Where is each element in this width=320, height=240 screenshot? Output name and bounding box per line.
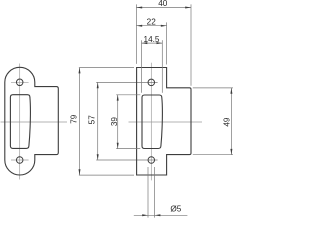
dim 49 extension top bbox=[193, 87, 233, 89]
dim 22 line bbox=[136, 25, 166, 27]
right view bottom screw hole bbox=[148, 157, 155, 164]
svg-text:79: 79 bbox=[70, 114, 79, 124]
left view top screw hole bbox=[16, 79, 23, 86]
dim diameter 5 extension right bbox=[154, 167, 156, 218]
dim 57 line bbox=[97, 82, 99, 160]
svg-text:57: 57 bbox=[88, 115, 97, 125]
dim 79 extension top bbox=[79, 67, 134, 69]
right view horizontal centerline bbox=[129, 121, 203, 123]
right view vertical centerline bbox=[150, 63, 152, 181]
svg-text:49: 49 bbox=[222, 117, 231, 127]
dim 40 extension left bbox=[135, 4, 137, 64]
right view top screw hole bbox=[148, 79, 155, 86]
left view bottom screw hole bbox=[16, 157, 23, 164]
dim 57 extension top / right view top hole crosshair bbox=[96, 81, 157, 83]
dim diameter 5 extension left bbox=[147, 167, 149, 218]
left view vertical centerline bbox=[19, 64, 21, 180]
right view plate outline bbox=[137, 68, 191, 176]
dim 39 extension bottom bbox=[116, 148, 140, 150]
dim 14.5 line bbox=[142, 42, 163, 44]
dim 79 extension bottom bbox=[79, 174, 134, 176]
dim 49 line bbox=[230, 88, 232, 155]
svg-text:22: 22 bbox=[147, 17, 157, 26]
svg-text:Ø5: Ø5 bbox=[170, 205, 181, 214]
dim 40 line bbox=[136, 7, 191, 9]
dim 39 line bbox=[117, 95, 119, 149]
dim 22 extension right bbox=[166, 22, 168, 64]
left view horizontal centerline bbox=[1, 121, 68, 123]
left view top hole crosshair bbox=[11, 81, 29, 83]
dim 49 extension bottom bbox=[193, 154, 233, 156]
svg-text:40: 40 bbox=[158, 0, 168, 8]
dim 40 extension right bbox=[190, 4, 192, 85]
dim 39 extension top bbox=[116, 94, 140, 96]
svg-text:14.5: 14.5 bbox=[144, 35, 160, 44]
dim diameter 5 line bbox=[134, 214, 188, 216]
dim 14.5 extension left bbox=[141, 40, 143, 93]
right view latch cutout bbox=[142, 95, 162, 149]
dim 57 extension bottom / right view bottom hole crosshair bbox=[96, 159, 157, 161]
svg-text:39: 39 bbox=[110, 117, 119, 127]
dim 79 line bbox=[79, 68, 81, 176]
dim 14.5 extension right bbox=[161, 40, 163, 93]
left view bottom hole crosshair bbox=[11, 159, 29, 161]
left view latch cutout bbox=[10, 95, 30, 149]
left view plate outline bbox=[5, 67, 59, 175]
